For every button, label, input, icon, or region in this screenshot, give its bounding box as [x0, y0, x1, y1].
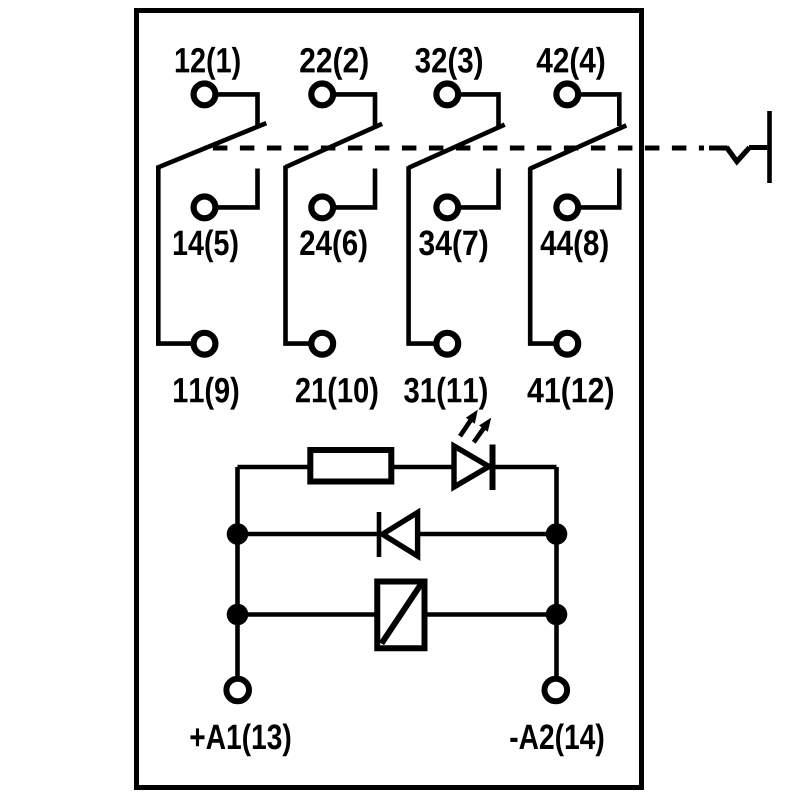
wire contact 1: top terminal to pivot [205, 94, 258, 126]
terminal +A1(13) [226, 679, 249, 702]
contact lever K1 [157, 123, 267, 168]
terminal 11(9) bottom [194, 333, 216, 355]
wire contact 4: NO stub [567, 169, 619, 208]
contact lever K3 [409, 125, 505, 168]
contact lever K2 [285, 124, 382, 167]
wire bottom branch (coil) [238, 612, 557, 617]
contact lever K4 [530, 125, 627, 168]
actuation dashed line [213, 146, 704, 151]
label 21(10) [296, 377, 378, 410]
wire to armature bar [749, 145, 767, 150]
terminal 31(11) bottom [436, 333, 458, 355]
wire right rail A2 [554, 467, 559, 690]
wire contact 3: NO stub [447, 169, 498, 208]
dash into V notch [709, 146, 728, 151]
armature bar [767, 111, 772, 183]
wire contact 4: top terminal to pivot [567, 94, 619, 126]
relay outline border [137, 11, 642, 788]
label 22(2) [300, 47, 367, 80]
terminal 24(6) middle [311, 197, 333, 219]
wire contact 2: common down-run [286, 166, 323, 344]
wire contact 2: top terminal to pivot [322, 94, 375, 126]
coil K1 [377, 582, 424, 649]
terminal 32(3) top [436, 84, 458, 106]
label 34(7) [419, 229, 487, 262]
wire middle branch (diode) [238, 532, 557, 537]
junction node (237,534) [227, 523, 249, 545]
wire contact 1: NO stub [205, 169, 258, 208]
resistor R1 [310, 450, 391, 482]
label 41(12) [528, 377, 614, 410]
label 24(6) [300, 229, 366, 262]
junction node (237,614) [227, 604, 249, 626]
LED arrow 2 [474, 418, 491, 443]
label -A2(14) [510, 723, 603, 756]
diode V2 [379, 512, 418, 557]
label 42(4) [537, 47, 605, 80]
label 44(8) [541, 229, 608, 262]
label 32(3) [415, 47, 482, 80]
wire left rail A1 [235, 467, 240, 690]
terminal 42(4) top [556, 84, 578, 106]
label 14(5) [174, 229, 238, 262]
terminal 21(10) bottom [311, 333, 333, 355]
label 11(9) [174, 377, 238, 410]
LED arrow 1 [460, 410, 478, 437]
actuation V notch [727, 147, 750, 161]
label 31(11) [404, 377, 487, 410]
wire contact 3: top terminal to pivot [447, 94, 498, 126]
terminal 14(5) middle [194, 197, 216, 219]
junction node (556,534) [546, 523, 568, 545]
wire contact 1: common down-run [158, 167, 204, 344]
junction node (556,614) [546, 604, 568, 626]
LED V1 [454, 445, 493, 491]
wire contact 2: NO stub [322, 169, 375, 208]
wire top branch (resistor+LED) [238, 465, 557, 470]
wire contact 3: common down-run [409, 166, 448, 343]
terminal 41(12) bottom [556, 333, 578, 355]
terminal 22(2) top [311, 84, 333, 106]
terminal -A2(14) [545, 679, 568, 702]
terminal 34(7) middle [436, 197, 458, 219]
wire contact 4: common down-run [530, 167, 567, 343]
terminal 12(1) top [194, 84, 216, 106]
terminal 44(8) middle [556, 197, 578, 219]
label +A1(13) [190, 723, 290, 756]
label 12(1) [176, 47, 240, 80]
